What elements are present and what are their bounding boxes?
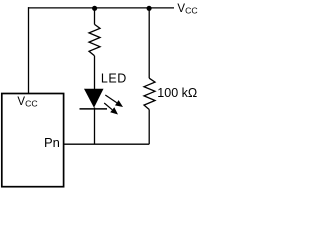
svg-text:VCC: VCC	[17, 96, 37, 109]
svg-text:VCC: VCC	[177, 3, 197, 16]
svg-text:LED: LED	[101, 72, 127, 86]
svg-text:Pn: Pn	[44, 135, 60, 150]
svg-text:100 kΩ: 100 kΩ	[157, 86, 197, 100]
